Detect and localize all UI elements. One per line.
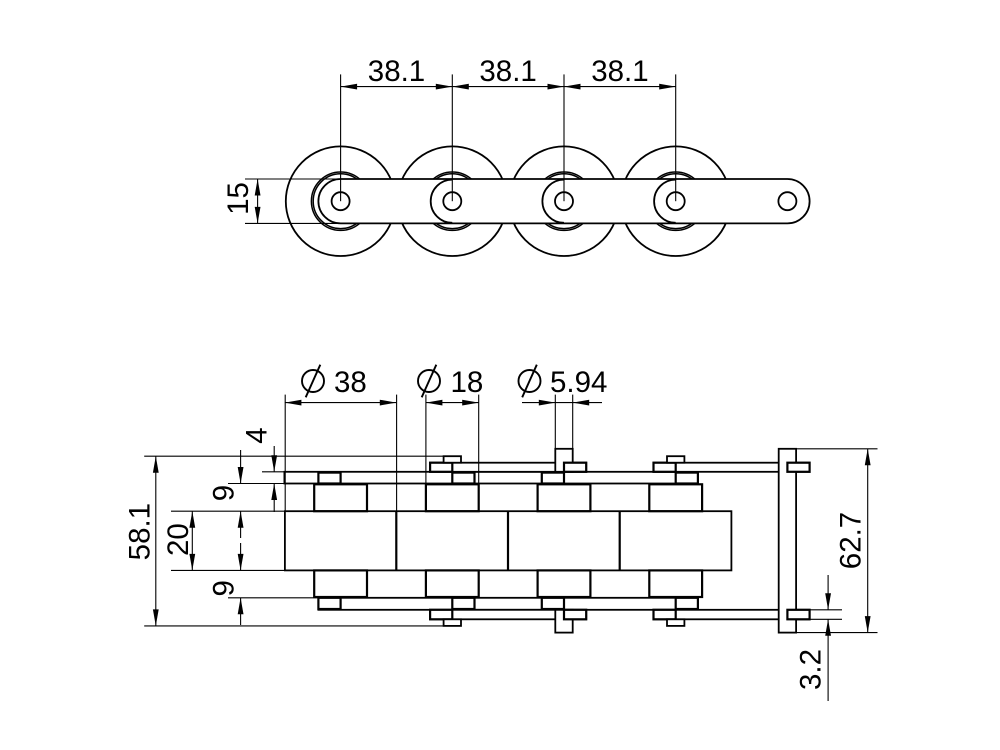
svg-text:62.7: 62.7 [835, 512, 868, 569]
svg-text:15: 15 [222, 182, 255, 215]
svg-text:9: 9 [208, 580, 241, 596]
svg-text:9: 9 [208, 485, 241, 501]
svg-text:58.1: 58.1 [123, 503, 156, 560]
svg-text:38.1: 38.1 [479, 55, 536, 88]
svg-text:38.1: 38.1 [368, 55, 425, 88]
svg-text:5.94: 5.94 [550, 366, 607, 399]
svg-text:18: 18 [451, 366, 484, 399]
svg-text:4: 4 [240, 427, 273, 443]
svg-text:3.2: 3.2 [795, 649, 828, 690]
svg-text:38.1: 38.1 [591, 55, 648, 88]
svg-text:20: 20 [162, 523, 195, 556]
svg-text:38: 38 [334, 366, 367, 399]
